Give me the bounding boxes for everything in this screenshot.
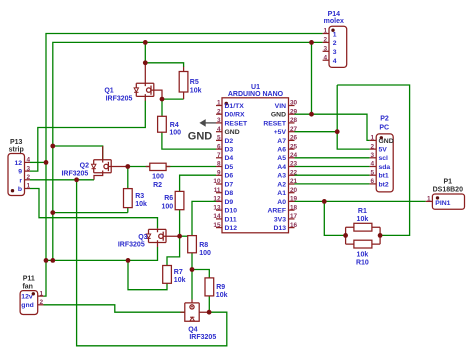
svg-text:Q1: Q1 (104, 88, 113, 95)
svg-text:bt2: bt2 (379, 181, 389, 188)
node U1 pin 25 number (290, 143, 298, 150)
wire U1 right pin 22 stub (289, 174, 295, 176)
wire U1 right pin 24 stub (289, 157, 295, 159)
node P2 pin 5 name bt1 (379, 173, 389, 180)
wire U1 right pin 21 stub (289, 183, 295, 185)
svg-text:P1: P1 (444, 178, 453, 185)
node U1 pin 21 number (290, 178, 298, 185)
connector P2 PC (376, 134, 393, 192)
node U1 pin 10 number (213, 178, 221, 185)
node U1 pin 24 name A5 (277, 155, 286, 162)
node U1 pin 1 name D1/TX (225, 103, 245, 110)
svg-text:20: 20 (290, 187, 298, 194)
node U1 pin 23 number (290, 161, 298, 168)
node P2 pin 1 number (370, 135, 374, 142)
svg-text:17: 17 (290, 213, 298, 220)
svg-text:A4: A4 (277, 164, 286, 171)
wire U1 pin24 A5 to P2 pin3 scl (295, 157, 370, 159)
svg-text:D0/RX: D0/RX (225, 112, 245, 119)
svg-text:12: 12 (213, 196, 221, 203)
node P14 pin 4 name (333, 58, 337, 65)
node junction at 145.3,42.4 (143, 40, 148, 45)
resistor R10 10k (354, 240, 372, 248)
node P1 pin 1 number (427, 196, 431, 203)
wire U1 left pin 7 stub (216, 157, 222, 159)
svg-text:strip: strip (9, 147, 24, 154)
node U1 title (228, 84, 284, 98)
svg-text:DS18B20: DS18B20 (433, 186, 463, 193)
svg-text:2: 2 (40, 299, 44, 306)
wire P13 pin2 to Q2 source (30, 179, 94, 181)
node U1 pin 8 name D5 (225, 164, 234, 171)
node U1 pin 25 name A6 (277, 147, 286, 154)
wire P13 pin 1 stub (25, 188, 31, 190)
wire P2 pin 1 stub (370, 139, 377, 141)
wire U1 left pin 8 stub (216, 166, 222, 168)
ground GND power symbol at U1 pin3 (188, 119, 216, 142)
svg-text:GND: GND (271, 112, 286, 119)
svg-text:100: 100 (162, 204, 174, 211)
node P11 pin 1 name (21, 294, 33, 301)
svg-text:12: 12 (14, 160, 22, 167)
wire U1 pin22 A3 to P2 pin5 bt1 (295, 174, 370, 176)
node P13 pin 4 number (27, 157, 31, 164)
wire P14 pin 2 stub (323, 41, 329, 43)
node U1 pin 14 name D11 (225, 216, 237, 223)
node U1 pin 13 name D10 (225, 208, 238, 215)
wire P2 pin 6 stub (370, 183, 377, 185)
node U1 pin 3 name RESET (225, 120, 249, 127)
node U1 pin 17 number (290, 213, 298, 220)
svg-text:bt1: bt1 (379, 173, 389, 180)
svg-text:28: 28 (290, 117, 298, 124)
wire R9 bottom to Q4 gate node (208, 296, 210, 312)
resistor R2 100 (146, 163, 171, 170)
wire U1 pin29 GND to P2 pin1 (295, 114, 370, 140)
node U1 pin 8 number (217, 161, 221, 168)
wire Q1 drain to R5 top (145, 63, 183, 67)
svg-text:30: 30 (290, 100, 298, 107)
svg-text:R2: R2 (153, 182, 162, 189)
wire U1 right pin 27 stub (289, 131, 295, 133)
svg-text:Q3: Q3 (138, 234, 147, 241)
svg-text:15: 15 (213, 222, 221, 229)
node U1 pin 27 name +5V (274, 129, 287, 136)
node U1 pin 20 name A1 (277, 190, 286, 197)
wire U1 right pin 20 stub (289, 192, 295, 194)
svg-text:VIN: VIN (275, 103, 286, 110)
node U1 pin 1 number (217, 100, 221, 107)
wire P1 pin 1 stub (426, 200, 433, 202)
node U1 pin 10 name D7 (225, 181, 234, 188)
node P14 labels (324, 11, 344, 25)
node U1 pin 29 number (290, 108, 298, 115)
svg-text:D5: D5 (225, 164, 234, 171)
svg-text:D2: D2 (225, 138, 234, 145)
wire U1 right pin 25 stub (289, 148, 295, 150)
wire Q1 source to P13 pin3 (30, 101, 145, 172)
svg-text:3: 3 (217, 117, 221, 124)
svg-text:29: 29 (290, 108, 298, 115)
svg-text:25: 25 (290, 143, 298, 150)
svg-text:R7: R7 (174, 269, 183, 276)
node junction at 145.3,62.8 (143, 60, 148, 65)
wire P13 pin 4 stub (25, 161, 31, 163)
svg-text:D12: D12 (225, 225, 238, 232)
node P14 pin 3 name (333, 49, 337, 56)
node U1 pin 13 number (213, 204, 221, 211)
node U1 pin 19 number (290, 196, 298, 203)
svg-text:RESET: RESET (263, 120, 287, 127)
node junction at 52.8,212.6 (50, 210, 55, 215)
node P14 pin 2 number (323, 37, 327, 44)
node U1 pin 6 name D3 (225, 147, 234, 154)
svg-text:D6: D6 (225, 173, 234, 180)
svg-text:2: 2 (323, 37, 327, 44)
svg-text:1: 1 (333, 31, 337, 38)
svg-text:2: 2 (333, 40, 337, 47)
svg-text:6: 6 (217, 143, 221, 150)
node U1 pin 23 name A4 (277, 164, 286, 171)
svg-text:10k: 10k (357, 252, 369, 259)
wire P11 pin1 riser (44, 260, 47, 296)
node U1 pin 7 number (217, 152, 221, 159)
svg-text:scl: scl (379, 155, 389, 162)
node P13 pin 2 name (19, 177, 22, 184)
svg-text:sda: sda (379, 164, 391, 171)
node junction at 345.6,235.4 (343, 233, 348, 238)
node P11 pin 2 number (40, 299, 44, 306)
wire R7 bottom to lower rail node (128, 260, 167, 289)
svg-text:5: 5 (370, 169, 374, 176)
svg-text:10k: 10k (216, 292, 228, 299)
resistor R4 100 (158, 116, 167, 132)
wire P13 pin 2 stub (25, 179, 31, 181)
svg-text:R10: R10 (356, 260, 369, 267)
wire R5 bottom to Q1 gate node (162, 98, 184, 100)
wire R8 bottom to Q4 drain (191, 253, 193, 300)
svg-text:IRF3205: IRF3205 (189, 334, 216, 341)
wire U1 left pin 15 stub (216, 227, 222, 229)
node P14 pin 1 number (323, 28, 327, 35)
svg-text:D4: D4 (225, 155, 234, 162)
svg-text:A2: A2 (277, 181, 286, 188)
wire U1 left pin 14 stub (216, 218, 222, 220)
connector P11 fan (20, 291, 38, 315)
svg-text:A1: A1 (277, 190, 286, 197)
svg-text:2: 2 (217, 108, 221, 115)
resistor R9 10k (205, 278, 214, 296)
node U1 pin 30 name VIN (275, 103, 286, 110)
svg-text:P13: P13 (10, 139, 23, 146)
svg-text:AREF: AREF (267, 208, 286, 215)
wire U1 left pin 9 stub (216, 174, 222, 176)
node R2 labels (152, 174, 164, 189)
svg-text:3: 3 (333, 49, 337, 56)
node R10 labels (356, 252, 369, 267)
node P13 pin 3 number (27, 165, 31, 172)
node junction at 209.1,312.2 (207, 310, 212, 315)
node Q4 labels (188, 327, 216, 342)
svg-text:2: 2 (370, 143, 374, 150)
wire +12V rail top to P14 pin1 and down left side to P13 pin4 area (46, 34, 323, 261)
svg-text:P2: P2 (380, 115, 389, 122)
node U1 pin 14 number (213, 213, 221, 220)
wire P2 pin 5 stub (370, 174, 377, 176)
wire U1 left pin 3 stub (216, 122, 222, 124)
svg-text:12v: 12v (21, 294, 33, 301)
svg-text:R5: R5 (190, 79, 199, 86)
transistor Q2 IRF3205 (92, 146, 128, 180)
node P14 pin 2 name (333, 40, 337, 47)
node P2 labels (379, 115, 389, 131)
transistor Q1 IRF3205 (134, 63, 162, 101)
node P2 pin 3 number (370, 152, 374, 159)
wire branch to R3 bottom (53, 208, 128, 213)
wire U1 left pin 1 stub (216, 105, 222, 107)
wire R6 top to U1 pin9 D6 (180, 175, 216, 191)
svg-text:A5: A5 (277, 155, 286, 162)
svg-text:1: 1 (217, 100, 221, 107)
wire U1 pin19 A0 to P1 DS18B20 (295, 200, 426, 202)
svg-text:5V: 5V (379, 147, 388, 154)
node U1 pin 22 name A3 (277, 173, 286, 180)
node P14 pin 4 number (323, 54, 327, 61)
svg-text:R8: R8 (199, 242, 208, 249)
node junction at 52.8,146 (50, 144, 55, 149)
node Q1 labels (104, 88, 132, 103)
node R9 labels (216, 284, 228, 299)
node R4 labels (169, 122, 181, 137)
wire P2 pin 3 stub (370, 157, 377, 159)
wire Q3 gate node to R7 top (167, 236, 180, 265)
wire P11 pin 1 stub (38, 295, 44, 297)
svg-text:R3: R3 (135, 193, 144, 200)
node P13 pin 1 name (18, 186, 22, 193)
svg-text:11: 11 (214, 187, 221, 194)
svg-text:PIN1: PIN1 (435, 200, 450, 207)
svg-text:P14: P14 (328, 11, 341, 18)
svg-text:4: 4 (27, 157, 31, 164)
svg-text:R4: R4 (170, 122, 179, 129)
svg-text:26: 26 (290, 135, 298, 142)
svg-text:GND: GND (188, 131, 213, 143)
wire U1 right pin 26 stub (289, 139, 295, 141)
wire U1 pin12 D9 to R8 (192, 201, 216, 235)
wire P13 pin1 to Q3 drain (30, 189, 158, 229)
wire U1 right pin 28 stub (289, 122, 295, 124)
op-amp U1 ARDUINO NANO body (222, 98, 289, 233)
svg-text:6: 6 (370, 178, 374, 185)
svg-text:IRF3205: IRF3205 (118, 242, 145, 249)
node U1 pin 4 name GND (225, 129, 240, 136)
node U1 pin 28 number (290, 117, 298, 124)
node P2 pin 4 number (370, 161, 374, 168)
wire U1 left pin 4 stub (216, 131, 222, 133)
svg-text:8: 8 (217, 161, 221, 168)
wire P13 pin4 branch (30, 161, 46, 163)
node R1 labels (357, 208, 369, 223)
wire P11 pin 2 stub (38, 304, 44, 306)
wire P2 pin 2 stub (370, 148, 377, 150)
svg-text:R1: R1 (358, 208, 367, 215)
svg-text:D7: D7 (225, 181, 234, 188)
svg-text:1: 1 (323, 28, 327, 35)
node R5 labels (190, 79, 202, 95)
node U1 pin 17 name 3V3 (274, 216, 286, 223)
node Q3 labels (118, 234, 148, 249)
svg-text:9: 9 (18, 169, 22, 176)
wire U1 left pin 2 stub (216, 113, 222, 115)
svg-text:1: 1 (370, 135, 374, 142)
resistor R3 10k (124, 189, 133, 208)
node junction at 76.6,179.8 (74, 177, 79, 182)
wire R8 bottom node to R9 top (192, 270, 209, 278)
node U1 pin 3 number (217, 117, 221, 124)
node P2 pin 6 number (370, 178, 374, 185)
node P1 pin 1 name PIN1 (435, 200, 450, 207)
node U1 pin 21 name A2 (277, 181, 286, 188)
svg-text:3V3: 3V3 (274, 216, 286, 223)
wire Q2 gate node to R2 to U1 pin8 D5 (128, 166, 216, 168)
svg-text:RESET: RESET (225, 120, 249, 127)
node P11 labels (22, 275, 34, 290)
node junction at 162,99.1 (160, 97, 165, 102)
svg-text:D13: D13 (274, 225, 287, 232)
svg-text:IRF3205: IRF3205 (61, 170, 88, 177)
node U1 pin 6 number (217, 143, 221, 150)
svg-text:100: 100 (199, 250, 211, 257)
svg-text:100: 100 (169, 129, 181, 136)
svg-text:1: 1 (27, 183, 31, 190)
svg-text:27: 27 (290, 126, 298, 133)
node U1 pin 22 number (290, 170, 298, 177)
resistor R8 100 (188, 236, 197, 253)
resistor R1 10k (346, 223, 381, 244)
node junction at 380.1,235.4 (378, 233, 383, 238)
node U1 pin 9 number (217, 170, 221, 177)
wire U1 right pin 18 stub (289, 209, 295, 211)
node junction at 337.2,131.7 (335, 129, 340, 134)
wire P2 pin 4 stub (370, 166, 377, 168)
svg-text:+5V: +5V (274, 129, 287, 136)
svg-text:Q2: Q2 (80, 163, 89, 170)
node U1 pin 28 name RESET (263, 120, 287, 127)
node junction at 311.5,42.4 (309, 40, 314, 45)
wire P14 pin2 to U1 pin29 GND (311, 42, 313, 114)
svg-text:b: b (18, 186, 22, 193)
svg-text:3: 3 (370, 152, 374, 159)
node U1 pin 2 number (217, 108, 221, 115)
node junction at 46,162.4 (44, 160, 49, 165)
svg-text:D9: D9 (225, 199, 234, 206)
connector P13 strip (8, 154, 25, 196)
node P14 pin 1 name (333, 31, 337, 38)
wire U1 right pin 29 stub (289, 113, 295, 115)
wire R4 bottom to U1 pin6 D3 (162, 132, 216, 149)
svg-text:4: 4 (370, 161, 374, 168)
svg-text:2: 2 (27, 174, 31, 181)
svg-text:U1: U1 (251, 84, 260, 91)
svg-text:1: 1 (40, 290, 44, 297)
svg-text:A7: A7 (277, 138, 286, 145)
svg-text:R6: R6 (164, 195, 173, 202)
connector P1 DS18B20 (432, 194, 464, 209)
svg-text:A0: A0 (277, 199, 286, 206)
svg-text:IRF3205: IRF3205 (106, 96, 133, 103)
node P13 pin 3 name (18, 169, 22, 176)
node U1 pin 9 name D6 (225, 173, 234, 180)
wire branch to Q2 drain (53, 146, 103, 160)
svg-text:fan: fan (22, 283, 33, 290)
node U1 pin 11 number (214, 187, 221, 194)
svg-text:3: 3 (27, 165, 31, 172)
node P2 pin 2 name 5V (379, 147, 388, 154)
node Q2 labels (61, 163, 89, 178)
svg-text:GND: GND (225, 129, 240, 136)
node U1 pin 16 name D13 (274, 225, 287, 232)
resistor R7 10k (163, 266, 172, 284)
node U1 pin 15 number (213, 222, 221, 229)
wire U1 left pin 10 stub (216, 183, 222, 185)
svg-text:A3: A3 (277, 173, 286, 180)
svg-text:PC: PC (379, 124, 389, 131)
node U1 pin 15 name D12 (225, 225, 238, 232)
svg-text:10k: 10k (135, 201, 147, 208)
wire Q1 drain riser (144, 42, 146, 62)
node U1 pin 24 number (290, 152, 298, 159)
node U1 pin 11 name D8 (225, 190, 234, 197)
node U1 pin 16 number (290, 222, 298, 229)
wire P11 pin2 to Q4 source (44, 305, 185, 312)
node U1 pin 20 number (290, 187, 298, 194)
node U1 pin 26 number (290, 135, 298, 142)
wire U1 right pin 30 stub (289, 105, 295, 107)
wire GND rail top to P14 pin2, down to Q2 drain and R3 bottom (53, 42, 323, 260)
wire U1 right pin 23 stub (289, 166, 295, 168)
node U1 pin 18 number (290, 204, 298, 211)
wire U1 right pin 16 stub (289, 227, 295, 229)
svg-text:13: 13 (213, 204, 221, 211)
svg-text:D1/TX: D1/TX (225, 103, 245, 110)
node U1 pin 12 number (213, 196, 221, 203)
node junction at 324.3,201.4 (322, 199, 327, 204)
resistor R6 100 (175, 191, 184, 209)
resistor R5 10k (179, 67, 188, 99)
node U1 pin 18 name AREF (267, 208, 286, 215)
svg-text:D8: D8 (225, 190, 234, 197)
node U1 pin 29 name GND (271, 112, 286, 119)
wire U1 left pin 11 stub (216, 192, 222, 194)
svg-text:P11: P11 (23, 275, 35, 282)
svg-text:4: 4 (217, 126, 221, 133)
wire Q2 gate node to R3 top (127, 167, 129, 189)
svg-text:23: 23 (290, 161, 298, 168)
node U1 pin 2 name D0/RX (225, 112, 245, 119)
svg-text:10k: 10k (190, 88, 202, 95)
svg-text:GND: GND (379, 138, 394, 145)
node P2 pin 1 name GND (379, 138, 394, 145)
node U1 pin 12 name D9 (225, 199, 234, 206)
wire U1 pin23 A4 to P2 pin4 sda (295, 166, 370, 168)
wire Q3 gate node to R8 top (180, 235, 188, 237)
node P13 pin 4 name (14, 160, 22, 167)
node P2 pin 4 name sda (379, 164, 391, 171)
svg-text:r: r (19, 177, 22, 184)
node R6 labels (162, 195, 174, 210)
wire U1 right pin 19 stub (289, 200, 295, 202)
node U1 pin 19 name A0 (277, 199, 286, 206)
